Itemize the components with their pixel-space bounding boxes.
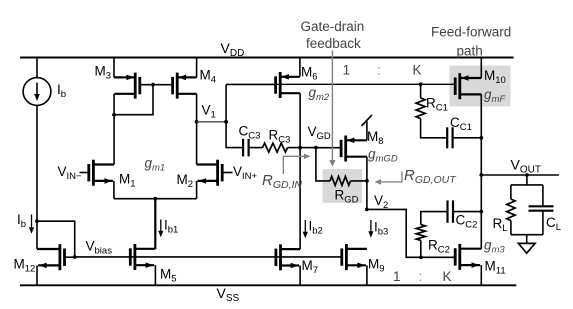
node V1 — [195, 120, 199, 124]
wire VIN- to M1 gate — [80, 172, 89, 174]
annotation RGD_OUT leader arrow — [379, 172, 403, 182]
resistor RC2 — [420, 240, 422, 257]
wire CC3 to RC3 — [249, 147, 263, 149]
transistor M12 gate bar — [63, 249, 66, 266]
wire VOUT down to load — [526, 175, 528, 185]
node tail — [153, 197, 157, 201]
transistor M6 gate bar — [274, 76, 277, 93]
wire M3 M4 gate line — [140, 84, 173, 86]
transistor M2 source lead — [198, 180, 218, 182]
transistor M4 channel bar — [176, 73, 179, 99]
wire VDD to M10 source — [480, 58, 482, 79]
wire VOUT rail — [481, 174, 559, 176]
wire VGD to M8 gate node — [300, 147, 316, 149]
svg-text:Feed-forward: Feed-forward — [431, 25, 511, 40]
transistor M2 gate bar — [221, 164, 224, 181]
resistor RC1 — [416, 98, 425, 119]
wire M2 source down to tail — [196, 181, 198, 199]
transistor M7 gate bar — [274, 249, 277, 266]
transistor M10 gate bar — [454, 78, 457, 95]
node V2 — [365, 208, 369, 212]
annotation leader arrow to RGD — [331, 51, 333, 161]
transistor M9 gate bar — [340, 248, 343, 265]
transistor M8 gate bar — [340, 140, 343, 157]
wire current source to M12 drain — [36, 105, 38, 249]
transistor M11 channel bar — [458, 244, 461, 270]
wire node to M8 gate — [316, 147, 341, 149]
annotation arrow Ib1 — [160, 220, 162, 234]
wire load bottom bar — [511, 234, 543, 236]
wire VDD to M3 source — [113, 58, 115, 78]
wire RC2 top to CC2 — [421, 212, 448, 225]
VDD rail — [20, 57, 514, 59]
node load tap — [525, 173, 529, 177]
svg-text::: : — [377, 63, 381, 78]
node RC1 tap — [419, 82, 423, 86]
wire V1 up to second stage gate line — [225, 84, 227, 121]
wire M1 source down to tail — [113, 181, 115, 199]
wire M6 drain down through VGD to M7 drain — [299, 93, 301, 249]
transistor M4 source lead — [177, 76, 196, 78]
transistor M10 drain lead — [460, 93, 482, 95]
transistor M3 gate bar — [138, 77, 141, 94]
node mirror drain junction — [112, 113, 116, 117]
wire load top bar — [511, 184, 543, 186]
resistor RL — [510, 185, 512, 199]
wire gate line to M6 gate — [226, 83, 276, 85]
annotation RGD_IN leader arrow — [283, 156, 306, 174]
node VGD — [298, 146, 302, 150]
node RGD top tap — [314, 146, 318, 150]
transistor M11 gate bar — [454, 248, 457, 265]
wire VDD to M4 source — [196, 58, 198, 78]
transistor M6 drain lead — [280, 92, 300, 94]
wire RC1 tap down — [420, 84, 422, 98]
resistor RGD — [330, 176, 351, 185]
wire CC1 to output column — [453, 137, 482, 139]
svg-text:path: path — [457, 44, 483, 59]
wire tail to M5 drain — [154, 199, 156, 249]
transistor M1 source lead — [93, 180, 113, 182]
node VOUT — [479, 173, 483, 177]
transistor M12 channel bar — [59, 244, 62, 270]
transistor M12 source lead — [38, 264, 60, 266]
capacitor CL — [542, 185, 544, 206]
transistor M4 drain lead — [177, 93, 196, 95]
node Vbias — [73, 255, 77, 259]
transistor M9 channel bar — [345, 244, 348, 270]
transistor M7 source lead — [281, 264, 300, 266]
transistor M3 channel bar — [134, 73, 137, 99]
wire V2 to M11 gate branch — [367, 209, 455, 257]
transistor M5 gate bar — [129, 248, 132, 265]
transistor M1 channel bar — [92, 160, 95, 186]
wire V1 node — [197, 121, 227, 123]
transistor M5 source lead — [135, 264, 154, 266]
transistor M12 drain lead — [37, 248, 60, 250]
transistor M9 drain lead — [346, 248, 367, 250]
wire RC1 to CC1 — [421, 119, 448, 138]
transistor M3 drain lead — [114, 93, 135, 95]
wire gate line M6 to M10 — [276, 83, 456, 85]
transistor M7 drain lead — [281, 248, 301, 250]
svg-text:K: K — [443, 269, 452, 284]
transistor M12 gate lead — [65, 256, 75, 258]
wire M11 drain up output column — [480, 94, 482, 248]
transistor M8 drain lead — [346, 156, 367, 158]
node gate mirror — [151, 83, 155, 87]
wire Ib node to Vbias node — [37, 221, 75, 257]
transistor M10 source lead — [460, 77, 482, 79]
svg-text:1: 1 — [343, 63, 351, 78]
wire CC2 to output — [453, 211, 481, 213]
node bias tap junction — [35, 219, 39, 223]
wire RC3 to VGD node — [288, 147, 301, 149]
node RGD right — [365, 179, 369, 183]
transistor M1 drain lead — [93, 163, 114, 165]
wire M2 gate to VIN+ — [222, 172, 232, 174]
transistor M11 source lead — [460, 264, 480, 266]
wire M8 gate node down to RGD — [316, 148, 330, 181]
svg-text:K: K — [413, 63, 422, 78]
node V1 right junction — [224, 120, 228, 124]
transistor M10 channel bar — [458, 73, 461, 99]
wire M8 drain to RGD node and V2 — [366, 157, 368, 210]
wire M1 drain up to mirror node — [113, 94, 115, 165]
transistor M8 channel bar — [344, 136, 347, 162]
highlight box around RGD — [323, 169, 363, 203]
svg-text:feedback: feedback — [306, 36, 361, 51]
highlight box around M10/gmF — [450, 66, 511, 107]
wire Vbias line to M5 M7 M9 gates — [75, 256, 342, 258]
svg-text::: : — [419, 269, 423, 284]
wire M5 source to VSS — [154, 265, 156, 285]
wire V1 down to CC3 — [226, 122, 243, 148]
annotation arrow Ib down — [31, 215, 33, 230]
VSS rail — [20, 284, 516, 286]
annotation arrow Ib2 — [304, 220, 306, 234]
annotation arrow Ib3 — [370, 220, 372, 234]
wire VDD to M6 source — [299, 58, 301, 77]
svg-text:1: 1 — [393, 269, 401, 284]
svg-text:Gate-drain: Gate-drain — [301, 19, 365, 34]
transistor M5 channel bar — [133, 244, 136, 270]
transistor M7 channel bar — [279, 244, 282, 270]
transistor M6 source lead — [280, 76, 300, 78]
wire M7 source to VSS — [299, 266, 301, 286]
capacitor CC3 — [242, 139, 244, 157]
resistor RC3 — [263, 143, 288, 152]
capacitor CC1 — [446, 127, 448, 148]
transistor M1 gate bar — [87, 164, 90, 181]
wire VDD to current source Ib — [36, 58, 38, 78]
wire M4 drain to V1 and M2 drain — [196, 94, 198, 165]
transistor M3 source lead — [114, 76, 135, 78]
capacitor CC2 — [446, 200, 448, 222]
wire M9 source to VSS — [366, 265, 368, 285]
current source Ib — [23, 78, 51, 106]
transistor M11 drain lead — [460, 248, 482, 250]
transistor M2 channel bar — [216, 160, 219, 186]
wire RGD to M8 drain — [351, 180, 367, 182]
ground — [526, 235, 528, 244]
transistor M4 gate bar — [171, 77, 174, 94]
wire tail rail — [114, 198, 197, 200]
transistor M5 drain lead — [135, 248, 156, 250]
node CC2 output junction — [479, 210, 483, 214]
transistor M6 channel bar — [279, 72, 282, 98]
wire M8 source stub — [366, 122, 368, 141]
wire M12 source to VSS — [36, 265, 38, 285]
wire M11 source to VSS — [480, 265, 482, 285]
node RC2 bottom — [419, 255, 423, 259]
slash on M8 source stub — [362, 115, 372, 126]
transistor M9 source lead — [346, 264, 366, 266]
node CC1 output junction — [479, 136, 483, 140]
transistor M2 drain lead — [197, 163, 218, 165]
transistor M8 source lead — [346, 139, 367, 141]
wire diode connection M3 — [114, 85, 153, 115]
